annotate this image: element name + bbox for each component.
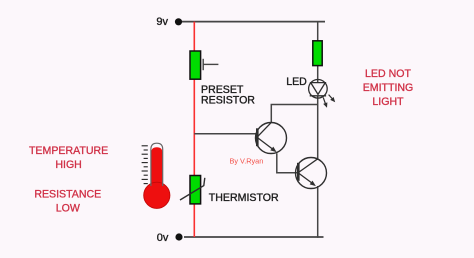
svg-text:RESISTOR: RESISTOR: [201, 94, 255, 106]
svg-text:RESISTANCE: RESISTANCE: [34, 189, 101, 201]
svg-text:THERMISTOR: THERMISTOR: [209, 192, 279, 204]
svg-text:EMITTING: EMITTING: [363, 82, 414, 94]
svg-text:By V.Ryan: By V.Ryan: [230, 156, 264, 165]
svg-text:9v: 9v: [156, 16, 168, 28]
svg-text:TEMPERATURE: TEMPERATURE: [29, 145, 108, 157]
svg-text:LIGHT: LIGHT: [372, 96, 404, 108]
svg-text:LOW: LOW: [56, 203, 80, 215]
svg-text:LED NOT: LED NOT: [365, 68, 411, 80]
svg-text:HIGH: HIGH: [55, 159, 81, 171]
svg-text:LED: LED: [286, 76, 307, 88]
svg-text:0v: 0v: [157, 232, 169, 244]
